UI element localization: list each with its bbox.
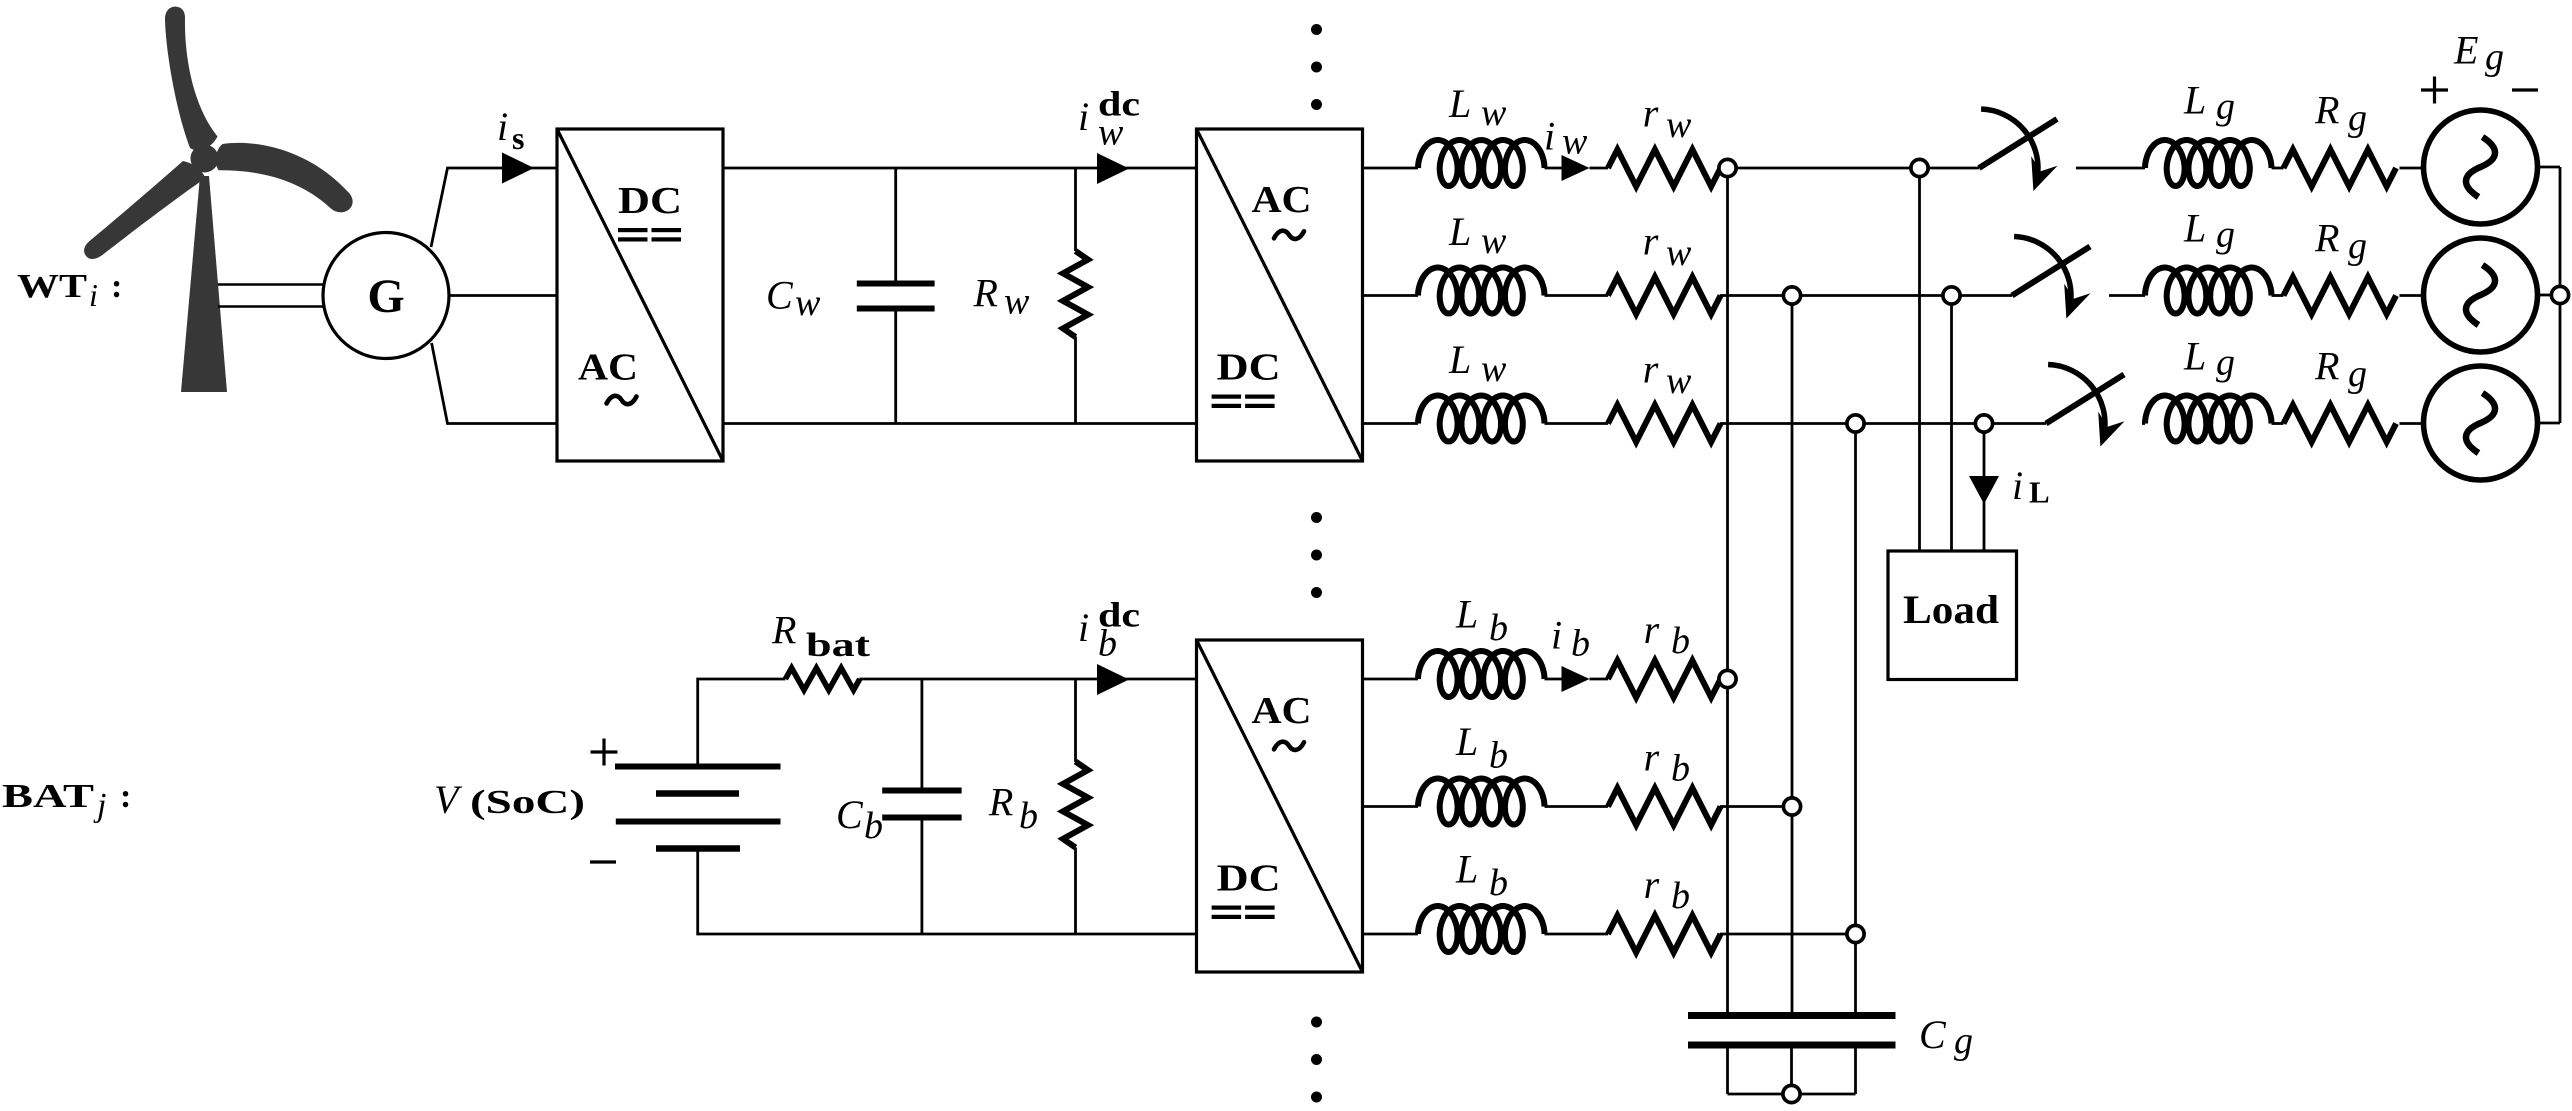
wire	[1720, 294, 2012, 297]
svg-text:R: R	[771, 608, 796, 653]
wire	[1363, 805, 1419, 808]
resistor rw phase 3	[1608, 405, 1721, 442]
svg-text:w: w	[1666, 232, 1692, 274]
wire	[1720, 167, 1979, 170]
svg-text:L: L	[1448, 209, 1471, 254]
ellipsis middle	[1311, 512, 1322, 523]
wind turbine icon	[84, 7, 353, 392]
source Eg phase 2	[2424, 238, 2538, 352]
battery minus	[590, 860, 616, 863]
source Eg phase 1	[2424, 110, 2538, 224]
svg-text:i: i	[497, 104, 508, 149]
converter U1 box	[557, 129, 723, 461]
battery V(SoC)	[615, 764, 781, 770]
wire	[2109, 294, 2145, 297]
svg-text:w: w	[1562, 120, 1588, 162]
node c2	[1975, 415, 1992, 432]
wire	[1720, 422, 2046, 425]
wire	[723, 167, 1197, 170]
wire to load c	[1983, 424, 1986, 552]
node b2	[1943, 287, 1960, 304]
wire	[1720, 805, 1792, 808]
svg-text::: :	[120, 778, 131, 815]
node c3	[1847, 925, 1864, 942]
wire	[1720, 933, 1856, 936]
wire	[1790, 1049, 1793, 1095]
svg-text:L: L	[2183, 334, 2206, 379]
inductor Lg phase 3	[2145, 396, 2272, 442]
current arrow i_w	[1562, 155, 1590, 181]
svg-text:DC: DC	[618, 180, 682, 222]
node a2	[1911, 159, 1928, 176]
svg-text:b: b	[1489, 607, 1508, 649]
svg-text:g: g	[2348, 353, 2367, 395]
resistor rw phase 1	[1608, 150, 1721, 187]
shaft	[218, 283, 324, 286]
wire	[432, 343, 557, 424]
svg-text:AC: AC	[578, 347, 638, 389]
svg-text:Load: Load	[1903, 587, 1999, 632]
svg-text:L: L	[1455, 719, 1478, 764]
wire	[1590, 167, 1609, 170]
inductor Lb phase 3	[1418, 906, 1545, 952]
svg-text:r: r	[1644, 607, 1660, 652]
svg-text:g: g	[2348, 225, 2367, 267]
svg-text:g: g	[1954, 1020, 1973, 1062]
svg-text:b: b	[1019, 795, 1038, 837]
wire	[1363, 422, 1419, 425]
capacitor Cb	[921, 679, 924, 788]
svg-text:b: b	[1671, 747, 1690, 789]
wire bus phase 2	[1791, 296, 1794, 1013]
svg-text:g: g	[2216, 86, 2235, 128]
svg-text:DC: DC	[1217, 858, 1281, 900]
svg-text:w: w	[1004, 280, 1030, 322]
svg-text:R: R	[2314, 88, 2339, 133]
label U2 ~	[1274, 231, 1304, 239]
switch S1	[1979, 119, 2057, 168]
wire	[1363, 167, 1419, 170]
svg-text:i: i	[89, 277, 98, 313]
current arrow i_L	[1969, 476, 1999, 504]
wire neutral rail	[1728, 1093, 1856, 1096]
svg-text::: :	[111, 268, 122, 305]
wire	[1363, 933, 1419, 936]
wire	[1545, 294, 1609, 297]
svg-text:R: R	[2314, 344, 2339, 389]
converter U3 box	[1197, 640, 1363, 972]
ellipsis top	[1311, 24, 1322, 35]
svg-text:r: r	[1644, 862, 1660, 907]
inductor Lb phase 2	[1418, 779, 1545, 825]
svg-text:BAT: BAT	[2, 778, 94, 815]
wire bus phase 1	[1726, 168, 1729, 1012]
wire	[1545, 678, 1562, 681]
svg-text:r: r	[1643, 91, 1659, 136]
wire	[2400, 294, 2424, 297]
svg-text:L: L	[2183, 206, 2206, 251]
label U1 ==	[618, 228, 648, 232]
svg-text:L: L	[1448, 81, 1471, 126]
svg-text:b: b	[1571, 623, 1590, 665]
svg-text:DC: DC	[1217, 347, 1281, 389]
resistor Rw	[1074, 168, 1077, 251]
inductor Lg phase 1	[2145, 140, 2272, 186]
svg-text:w: w	[1481, 220, 1507, 262]
svg-text:AC: AC	[1252, 179, 1312, 221]
svg-text:G: G	[367, 270, 404, 323]
svg-text:g: g	[2485, 36, 2504, 78]
svg-text:i: i	[1544, 114, 1555, 159]
svg-text:i: i	[1078, 94, 1089, 139]
inductor Lg phase 2	[2145, 268, 2272, 314]
svg-text:g: g	[2216, 214, 2235, 256]
svg-text:w: w	[1666, 360, 1692, 402]
svg-text:bat: bat	[806, 627, 871, 664]
wire	[2076, 167, 2145, 170]
svg-text:WT: WT	[17, 268, 87, 305]
wire	[859, 678, 1196, 681]
node a3	[1719, 670, 1736, 687]
wire	[1545, 933, 1609, 936]
wire	[449, 294, 557, 297]
svg-text:b: b	[1098, 623, 1117, 665]
wire	[723, 422, 1197, 425]
node c1	[1847, 415, 1864, 432]
wire	[2538, 166, 2561, 169]
ellipsis bottom	[1311, 1017, 1322, 1028]
svg-text:L: L	[2183, 78, 2206, 123]
svg-text:b: b	[1489, 735, 1508, 777]
resistor Rg phase 2	[2284, 277, 2397, 314]
svg-text:C: C	[836, 792, 864, 837]
svg-text:w: w	[1098, 112, 1124, 154]
wire	[1363, 678, 1419, 681]
wire bus phase 3	[1854, 424, 1857, 1013]
label U3 ~	[1274, 742, 1304, 750]
wire grid bus	[2559, 167, 2562, 423]
svg-text:R: R	[988, 780, 1013, 825]
label U3 ==	[1212, 906, 1242, 910]
svg-text:g: g	[2216, 342, 2235, 384]
node b3	[1783, 798, 1800, 815]
wire	[698, 679, 786, 767]
node a1	[1719, 159, 1736, 176]
wire	[2400, 167, 2424, 170]
svg-text:R: R	[2314, 216, 2339, 261]
capacitor Cw	[894, 168, 897, 281]
svg-text:i: i	[1551, 613, 1562, 658]
svg-text:s: s	[512, 120, 524, 156]
wire	[1590, 678, 1609, 681]
svg-text:b: b	[1671, 620, 1690, 662]
load box	[1888, 551, 2017, 680]
wire	[1545, 805, 1609, 808]
resistor Rg phase 3	[2284, 405, 2397, 442]
inductor Lw phase 3	[1418, 396, 1545, 442]
wire	[1545, 167, 1562, 170]
battery plus	[591, 750, 618, 753]
wire	[1720, 678, 1728, 681]
generator G	[323, 233, 449, 359]
wire	[698, 849, 1197, 935]
svg-text:C: C	[766, 273, 794, 318]
plus terminal	[2421, 88, 2448, 91]
svg-text:b: b	[1489, 862, 1508, 904]
wire	[2272, 167, 2284, 170]
svg-text:L: L	[2029, 475, 2050, 510]
svg-text:w: w	[1666, 104, 1692, 146]
source Eg phase 3	[2424, 366, 2538, 480]
wire	[2272, 294, 2284, 297]
svg-text:L: L	[1448, 337, 1471, 382]
converter U2 box	[1197, 129, 1363, 461]
wire	[1363, 294, 1419, 297]
switch S3	[2046, 375, 2124, 424]
wire	[2400, 422, 2424, 425]
svg-text:L: L	[1455, 847, 1478, 892]
svg-text:r: r	[1643, 219, 1659, 264]
svg-text:g: g	[2348, 97, 2367, 139]
current arrow i_b	[1562, 666, 1590, 692]
svg-text:w: w	[795, 282, 821, 324]
resistor rb phase 1	[1608, 661, 1721, 698]
node grid neutral	[2551, 286, 2568, 303]
resistor Rg phase 1	[2284, 150, 2397, 187]
minus terminal	[2512, 88, 2538, 91]
svg-text:b: b	[864, 805, 883, 847]
svg-text:i: i	[1078, 605, 1089, 650]
wire	[1545, 422, 1609, 425]
wire	[2538, 422, 2561, 425]
svg-text:(SoC): (SoC)	[470, 784, 585, 821]
wire	[2272, 422, 2284, 425]
resistor Rbat	[785, 668, 859, 690]
svg-text:r: r	[1644, 735, 1660, 780]
node b1	[1783, 287, 1800, 304]
current arrow i_w^dc	[1097, 153, 1129, 184]
svg-text:b: b	[1671, 875, 1690, 917]
current arrow i_b^dc	[1097, 664, 1129, 695]
svg-text:R: R	[973, 270, 998, 315]
wire	[1726, 1049, 1729, 1095]
node neutral	[1783, 1085, 1800, 1102]
wire	[1854, 1049, 1857, 1095]
label U2 ==	[1212, 395, 1242, 399]
svg-text:w: w	[1481, 92, 1507, 134]
resistor Rb	[1074, 679, 1077, 762]
svg-text:AC: AC	[1252, 690, 1312, 732]
wire	[2538, 294, 2561, 297]
resistor rb phase 2	[1608, 788, 1721, 825]
svg-text:L: L	[1455, 592, 1478, 637]
wire	[431, 168, 557, 247]
label U1 ~	[607, 396, 637, 404]
wire to load b	[1950, 296, 1953, 552]
svg-text:r: r	[1643, 347, 1659, 392]
inductor Lb phase 1	[1418, 651, 1545, 697]
wire to load a	[1918, 168, 1921, 551]
svg-text:w: w	[1481, 348, 1507, 390]
svg-text:E: E	[2453, 28, 2478, 73]
capacitor Cg	[1688, 1012, 1896, 1019]
svg-text:i: i	[2012, 463, 2023, 508]
resistor rb phase 3	[1608, 916, 1721, 953]
resistor rw phase 2	[1608, 277, 1721, 314]
switch S2	[2012, 247, 2090, 296]
inductor Lw phase 1	[1418, 140, 1545, 186]
current arrow i_s	[502, 153, 534, 184]
inductor Lw phase 2	[1418, 268, 1545, 314]
svg-text:C: C	[1919, 1012, 1947, 1057]
wire	[2142, 422, 2145, 425]
